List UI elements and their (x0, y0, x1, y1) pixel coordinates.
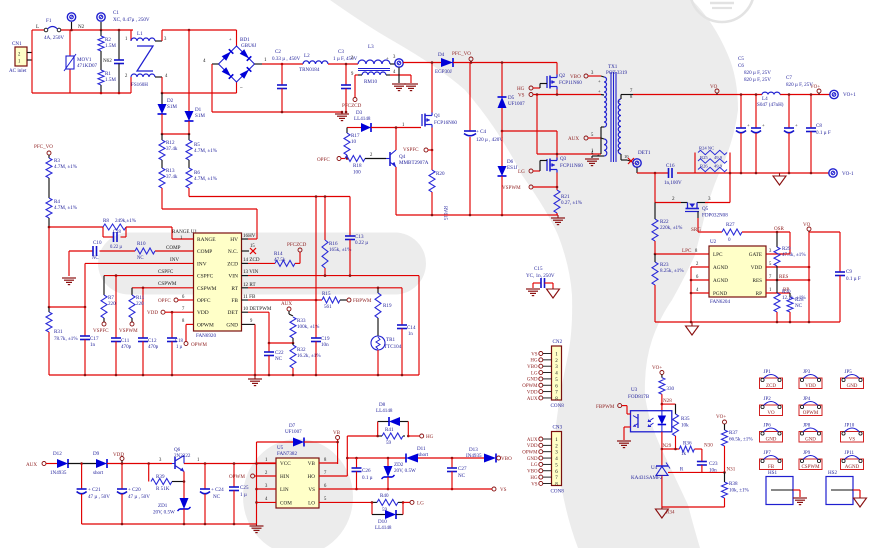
svg-text:LG: LG (518, 169, 525, 175)
port AUX mid (281, 301, 293, 316)
svg-text:CSPWM: CSPWM (158, 281, 177, 287)
svg-text:+: + (795, 124, 798, 129)
resistor R38 (722, 472, 750, 507)
zener ZD2 (382, 457, 417, 491)
svg-text:RP: RP (756, 291, 762, 297)
svg-text:HG: HG (530, 476, 538, 481)
wire ZCD (248, 262, 275, 264)
wire Q5 source (655, 173, 681, 203)
svg-text:OPWM: OPWM (522, 384, 538, 389)
ground opto (617, 427, 631, 448)
wire L line (32, 29, 133, 31)
resistor R29 (774, 231, 806, 280)
svg-text:C25: C25 (240, 485, 249, 491)
junction gnd rail (292, 374, 295, 377)
resistor R4 (46, 198, 78, 227)
port OPWM in (229, 474, 276, 480)
svg-text:VS: VS (518, 93, 525, 99)
ground aux winding (585, 159, 599, 166)
resistor R19 (375, 287, 392, 337)
port PFCZCD (342, 98, 362, 110)
port OPWM left (182, 319, 207, 348)
wire D5 to switch node (502, 131, 557, 160)
capacitor C16 (664, 163, 682, 186)
svg-text:C16: C16 (666, 163, 675, 169)
svg-text:R27: R27 (726, 222, 735, 228)
bridge rectifier BD1 GBU6J (203, 37, 267, 91)
svg-text:LL4148: LL4148 (376, 408, 393, 414)
svg-text:R15: R15 (322, 291, 331, 297)
capacitor C7 (784, 75, 813, 173)
junction rail R20 (431, 214, 434, 217)
ground secondary (773, 173, 786, 185)
junction D5 node (501, 130, 504, 133)
transformer TX1 POT-3319 (591, 64, 633, 162)
svg-text:HS2: HS2 (828, 470, 838, 476)
wire L3 pin9 to PFCZCD (355, 75, 358, 97)
svg-text:D12: D12 (53, 451, 62, 457)
svg-text:UF1007: UF1007 (285, 429, 302, 435)
label INV (170, 257, 179, 263)
label N29 (661, 443, 677, 450)
capacitor C15 Y-cap (526, 266, 555, 288)
svg-text:VS: VS (500, 487, 507, 493)
svg-text:OPWM: OPWM (197, 322, 214, 328)
svg-text:+: + (618, 100, 621, 105)
svg-text:49.9: 49.9 (714, 164, 723, 169)
port PFC_VO top (452, 51, 473, 64)
svg-text:VBO: VBO (501, 456, 512, 462)
svg-text:49.9: 49.9 (714, 155, 723, 160)
diode D4 EGP30J (403, 52, 557, 75)
svg-text:L: L (36, 24, 39, 30)
junction u2rail b (776, 321, 779, 324)
diode D2 S1M (158, 93, 178, 134)
svg-text:VDD: VDD (527, 390, 538, 395)
svg-text:820 µ F, 25V: 820 µ F, 25V (786, 82, 813, 88)
svg-text:+ C20: + C20 (128, 487, 141, 493)
pin5 VDD (766, 262, 810, 268)
svg-text:220: 220 (108, 301, 116, 307)
svg-text:OPWM: OPWM (522, 451, 538, 456)
svg-text:37.4k: 37.4k (166, 146, 178, 152)
junction vdd rail (233, 523, 236, 526)
capacitor C28 (103, 227, 126, 242)
svg-text:16HV: 16HV (243, 233, 256, 239)
wire U2 gnd rail (655, 321, 840, 323)
diode D3 LL4148 (347, 110, 421, 132)
svg-text:C14: C14 (407, 325, 416, 331)
wire CSPFC (104, 275, 194, 277)
junction gnd rail (254, 374, 257, 377)
resistor R2 (98, 30, 116, 70)
port PFCZCD upper (287, 242, 307, 252)
jumper JP9 (799, 451, 822, 470)
inductor L4 (757, 92, 784, 108)
port VO out (710, 84, 719, 95)
svg-text:165k, ±1%: 165k, ±1% (329, 247, 352, 253)
label CSPFC (158, 269, 174, 275)
connector CN2 (522, 339, 564, 409)
resistor R22 (652, 203, 683, 255)
svg-text:N30: N30 (704, 443, 713, 449)
svg-text:POT-3319: POT-3319 (606, 70, 627, 76)
svg-text:471KD07: 471KD07 (77, 63, 98, 69)
svg-text:JP9: JP9 (803, 451, 811, 456)
heatsink HS2 (826, 470, 860, 505)
junction rtn C7 (788, 172, 791, 175)
svg-text:NC: NC (213, 494, 221, 500)
svg-text:FS160H: FS160H (131, 82, 148, 88)
svg-text:470p: 470p (121, 344, 132, 350)
junction gnd rail (142, 374, 145, 377)
svg-text:D4: D4 (438, 52, 445, 58)
wire GND rail U1 (49, 374, 419, 376)
svg-text:LPC: LPC (682, 248, 692, 254)
port LG gate (518, 161, 547, 176)
resistor R330 (659, 375, 675, 405)
svg-text:4A, 250V: 4A, 250V (44, 35, 64, 41)
jumper JP7 (760, 451, 783, 470)
svg-text:COMP: COMP (166, 245, 181, 251)
label LPC (682, 248, 698, 254)
svg-text:4.7M, ±1%: 4.7M, ±1% (194, 176, 218, 182)
svg-text:11 FB: 11 FB (243, 294, 256, 300)
terminal DET1 (628, 150, 651, 173)
port AUX in (26, 462, 57, 469)
resistor R14 (274, 251, 295, 266)
svg-text:JP10: JP10 (845, 423, 855, 428)
sense column C19 (311, 195, 330, 375)
svg-text:INV: INV (197, 261, 207, 267)
wire secondary return rail (637, 172, 829, 174)
wire D1-D2 join (162, 133, 189, 135)
svg-text:ZCD: ZCD (227, 261, 238, 267)
svg-text:JP7: JP7 (764, 451, 772, 456)
svg-text:C5: C5 (738, 56, 744, 62)
svg-text:FCP11N60: FCP11N60 (560, 163, 583, 169)
svg-text:VO+1: VO+1 (843, 92, 856, 98)
svg-text:RES: RES (779, 274, 789, 280)
svg-text:LG: LG (417, 501, 424, 507)
port VDD left (147, 307, 194, 316)
svg-text:R19: R19 (383, 303, 392, 309)
capacitor C9 (835, 232, 861, 322)
junction rail C4 (469, 214, 472, 217)
svg-text:R24 NC: R24 NC (699, 146, 714, 151)
resistor R21 (554, 190, 583, 215)
svg-text:+: + (229, 38, 232, 43)
transistor Q1 FCP16N60 (422, 61, 457, 150)
port VSPWM lower (119, 322, 138, 334)
svg-text:N2: N2 (78, 24, 85, 30)
diode D9 short (93, 451, 172, 476)
wire Q5 drain riser (705, 173, 730, 203)
svg-text:HV: HV (230, 237, 238, 243)
svg-text:+: + (617, 149, 620, 154)
svg-text:HO: HO (308, 474, 316, 480)
svg-text:RV615: RV615 (442, 206, 447, 221)
ground bridge return (335, 111, 349, 121)
svg-text:F1: F1 (46, 18, 52, 24)
resistor R15 (322, 291, 347, 310)
svg-text:120 µ , 420V: 120 µ , 420V (476, 137, 503, 143)
svg-text:C7: C7 (786, 75, 792, 81)
svg-text:COMP: COMP (197, 249, 212, 255)
svg-text:GND: GND (805, 438, 816, 443)
svg-text:+: + (747, 124, 750, 129)
port LG out (403, 500, 424, 506)
svg-text:VS: VS (308, 487, 315, 493)
U2 AGND wires (690, 262, 709, 322)
svg-text:R8: R8 (103, 218, 109, 224)
svg-text:R38: R38 (729, 481, 738, 487)
svg-text:20V, 0.5W: 20V, 0.5W (394, 468, 416, 474)
capacitor C24 (200, 464, 224, 525)
junction C21 tap (80, 462, 83, 465)
svg-text:JP3: JP3 (803, 370, 811, 375)
svg-text:CSPWM: CSPWM (197, 286, 217, 292)
svg-text:COM: COM (280, 500, 292, 506)
label R34 (666, 510, 675, 516)
svg-text:10n: 10n (321, 342, 329, 348)
terminal VO+1 (830, 90, 856, 98)
svg-text:VS: VS (531, 482, 538, 487)
port VBO out (497, 456, 512, 462)
op-amp U1 FAN6920 controller (194, 233, 242, 339)
svg-text:+: + (598, 80, 601, 85)
jumper JP10 (841, 423, 864, 442)
svg-text:+ C21: + C21 (88, 487, 101, 493)
svg-text:UF1007: UF1007 (508, 101, 525, 107)
svg-text:GND: GND (226, 322, 238, 328)
junction R39 tap (147, 462, 150, 465)
junction C11 node (115, 274, 118, 277)
wire switch node VS (533, 94, 601, 96)
wire bridge minus (212, 64, 342, 112)
column VCC-COM (255, 442, 258, 524)
svg-text:PFC_VO: PFC_VO (34, 144, 53, 150)
resistor R3 (46, 158, 78, 198)
junction gnd rail (315, 374, 318, 377)
junction D2 out (161, 133, 164, 136)
svg-text:C26: C26 (362, 468, 371, 474)
svg-text:1N4935: 1N4935 (50, 470, 67, 476)
svg-text:IN4935: IN4935 (466, 453, 482, 459)
connector CN1 AC inlet (9, 41, 32, 74)
label SRG (691, 227, 701, 233)
junction C12 node (142, 287, 145, 290)
svg-text:JP2: JP2 (764, 397, 772, 402)
resistor R8 (103, 218, 137, 230)
svg-text:1.5M: 1.5M (105, 43, 116, 49)
junction u2rail c (789, 321, 792, 324)
svg-text:8.25k, ±1%: 8.25k, ±1% (660, 268, 684, 274)
svg-text:R37: R37 (729, 430, 738, 436)
svg-text:GND: GND (847, 384, 858, 389)
svg-text:R 51K: R 51K (156, 486, 170, 492)
junction D1 out (188, 133, 191, 136)
svg-text:10k: 10k (681, 423, 689, 429)
svg-text:U3: U3 (631, 387, 638, 393)
svg-text:66.5k, ±1%: 66.5k, ±1% (729, 437, 753, 443)
svg-text:AGND: AGND (845, 465, 860, 470)
svg-text:VBO: VBO (527, 470, 538, 475)
svg-text:FAN6920: FAN6920 (196, 333, 216, 339)
svg-text:220k, ±1%: 220k, ±1% (660, 225, 683, 231)
svg-text:+: + (598, 90, 601, 95)
svg-text:JP4: JP4 (803, 397, 811, 402)
resistor R10 (135, 241, 155, 261)
junction gnd rail (377, 374, 380, 377)
inductor L2 TRN0184 (299, 53, 328, 73)
svg-text:AUX: AUX (527, 438, 538, 443)
port VO sense (803, 222, 811, 232)
svg-text:C15: C15 (534, 266, 543, 272)
wire VBO row (347, 457, 484, 459)
svg-text:EGP30J: EGP30J (435, 69, 452, 75)
svg-text:D9: D9 (93, 451, 100, 457)
connector CN3 (522, 425, 564, 495)
capacitor C18 (167, 312, 183, 375)
svg-text:PFCZCD: PFCZCD (287, 242, 307, 248)
capacitor C4 (464, 63, 503, 216)
svg-text:47 µ , 50V: 47 µ , 50V (88, 494, 110, 500)
wire VO node (809, 232, 840, 322)
svg-text:CON8: CON8 (551, 403, 565, 409)
op-amp U2 FAN6204 sync controller (709, 239, 766, 305)
pin7 RES (766, 274, 810, 281)
capacitor C6 (738, 63, 771, 173)
wire HO to HG block (319, 436, 378, 476)
svg-text:U4: U4 (651, 465, 658, 471)
svg-text:LPC: LPC (713, 252, 723, 258)
diode D8 LL4148 (376, 402, 408, 436)
capacitor C22 (264, 343, 284, 375)
svg-text:OPWM: OPWM (803, 411, 819, 416)
diode D13 1N4935 (466, 447, 496, 463)
svg-text:NC: NC (137, 256, 144, 261)
capacitor C5 (736, 56, 750, 173)
port AUX winding (568, 133, 601, 142)
svg-text:+: + (762, 124, 765, 129)
svg-text:47.5k, ±1%: 47.5k, ±1% (782, 252, 806, 258)
shunt regulator U4 KA431SAMF2 (631, 449, 725, 507)
ground VDD rail (250, 524, 264, 533)
resistor R12 (159, 134, 178, 160)
capacitor C20 (117, 464, 150, 525)
svg-text:OPFC: OPFC (317, 157, 330, 163)
svg-text:VSPWM: VSPWM (502, 185, 521, 191)
svg-text:VCC: VCC (280, 461, 291, 467)
terminal L3 out (390, 59, 403, 83)
svg-text:100k, ±1%: 100k, ±1% (297, 324, 320, 330)
svg-text:R40: R40 (380, 493, 389, 499)
svg-text:220: 220 (136, 301, 144, 307)
svg-text:37.4k: 37.4k (166, 174, 178, 180)
svg-text:CON8: CON8 (551, 489, 565, 495)
svg-text:R39: R39 (156, 474, 165, 480)
junction DET node (268, 342, 271, 345)
svg-text:L3: L3 (368, 44, 374, 50)
svg-text:C8: C8 (816, 123, 822, 129)
resistor R20 (429, 150, 445, 215)
svg-text:R18: R18 (353, 163, 362, 169)
svg-text:AUX: AUX (568, 136, 579, 142)
svg-text:820 µ F, 25V: 820 µ F, 25V (744, 70, 771, 76)
port VO+ opto (652, 365, 664, 375)
port VO+ out (810, 84, 821, 95)
svg-text:R20: R20 (436, 171, 445, 177)
svg-text:U2: U2 (710, 239, 717, 245)
resistor R23 (652, 254, 684, 322)
svg-text:FB: FB (231, 298, 238, 304)
svg-text:VO: VO (803, 222, 811, 228)
jumper JP3 (799, 370, 822, 389)
svg-text:1k: 1k (681, 451, 687, 457)
svg-text:470p: 470p (148, 344, 159, 350)
junction u2rail d (808, 321, 811, 324)
ground COMP (62, 278, 76, 285)
svg-text:78.7k, ±1%: 78.7k, ±1% (54, 336, 78, 342)
resistor R5 (186, 134, 218, 160)
wire primary gnd rail (396, 214, 558, 216)
svg-text:20V, 0.5W: 20V, 0.5W (153, 510, 175, 516)
U5 right pin numbers (324, 458, 327, 502)
diode D5 UF1007 (498, 61, 526, 131)
resistor R37 (722, 424, 754, 472)
junction rtn C8 (810, 172, 813, 175)
svg-text:N62: N62 (103, 58, 112, 64)
junction Q2 source (556, 93, 559, 96)
svg-text:FAN7382: FAN7382 (277, 451, 297, 457)
svg-text:TTC104: TTC104 (384, 344, 402, 350)
svg-text:VDD: VDD (147, 310, 158, 316)
capacitor C3 (333, 49, 358, 113)
svg-text:S1M: S1M (195, 113, 205, 119)
ground U2 (686, 322, 699, 335)
op-amp U5 FAN7382 gate driver (276, 445, 319, 508)
junction rtn C6 (755, 172, 758, 175)
jumper JP11 (841, 451, 864, 470)
wire VDD gnd rail (82, 523, 257, 525)
svg-text:S1M: S1M (167, 104, 177, 110)
svg-text:0.22 µ: 0.22 µ (110, 245, 122, 250)
watermark background logo (98, 0, 754, 548)
svg-text:249k,±1%: 249k,±1% (115, 218, 137, 224)
U5 left pins (257, 458, 277, 502)
diode D7 UF1007 (257, 423, 338, 447)
svg-text:1.5M: 1.5M (105, 77, 116, 83)
svg-text:HG: HG (530, 359, 538, 364)
resistor R11 (129, 288, 145, 322)
svg-text:R35: R35 (681, 416, 690, 422)
svg-text:59: 59 (386, 440, 392, 446)
svg-text:MMBT2907A: MMBT2907A (399, 160, 429, 166)
svg-text:TRN0184: TRN0184 (299, 67, 320, 73)
diode D12 1N4935 (50, 451, 96, 476)
svg-text:CSPWM: CSPWM (801, 465, 820, 470)
svg-text:HG: HG (517, 86, 525, 92)
resistor R39 (149, 464, 184, 493)
svg-text:VDD: VDD (113, 452, 124, 458)
svg-text:LL4148: LL4148 (375, 525, 392, 531)
port VS gate (518, 93, 533, 99)
junction FB-C19 (315, 299, 318, 302)
svg-text:short: short (93, 470, 104, 476)
ground C15 right (547, 288, 560, 298)
svg-text:GND: GND (527, 378, 538, 383)
